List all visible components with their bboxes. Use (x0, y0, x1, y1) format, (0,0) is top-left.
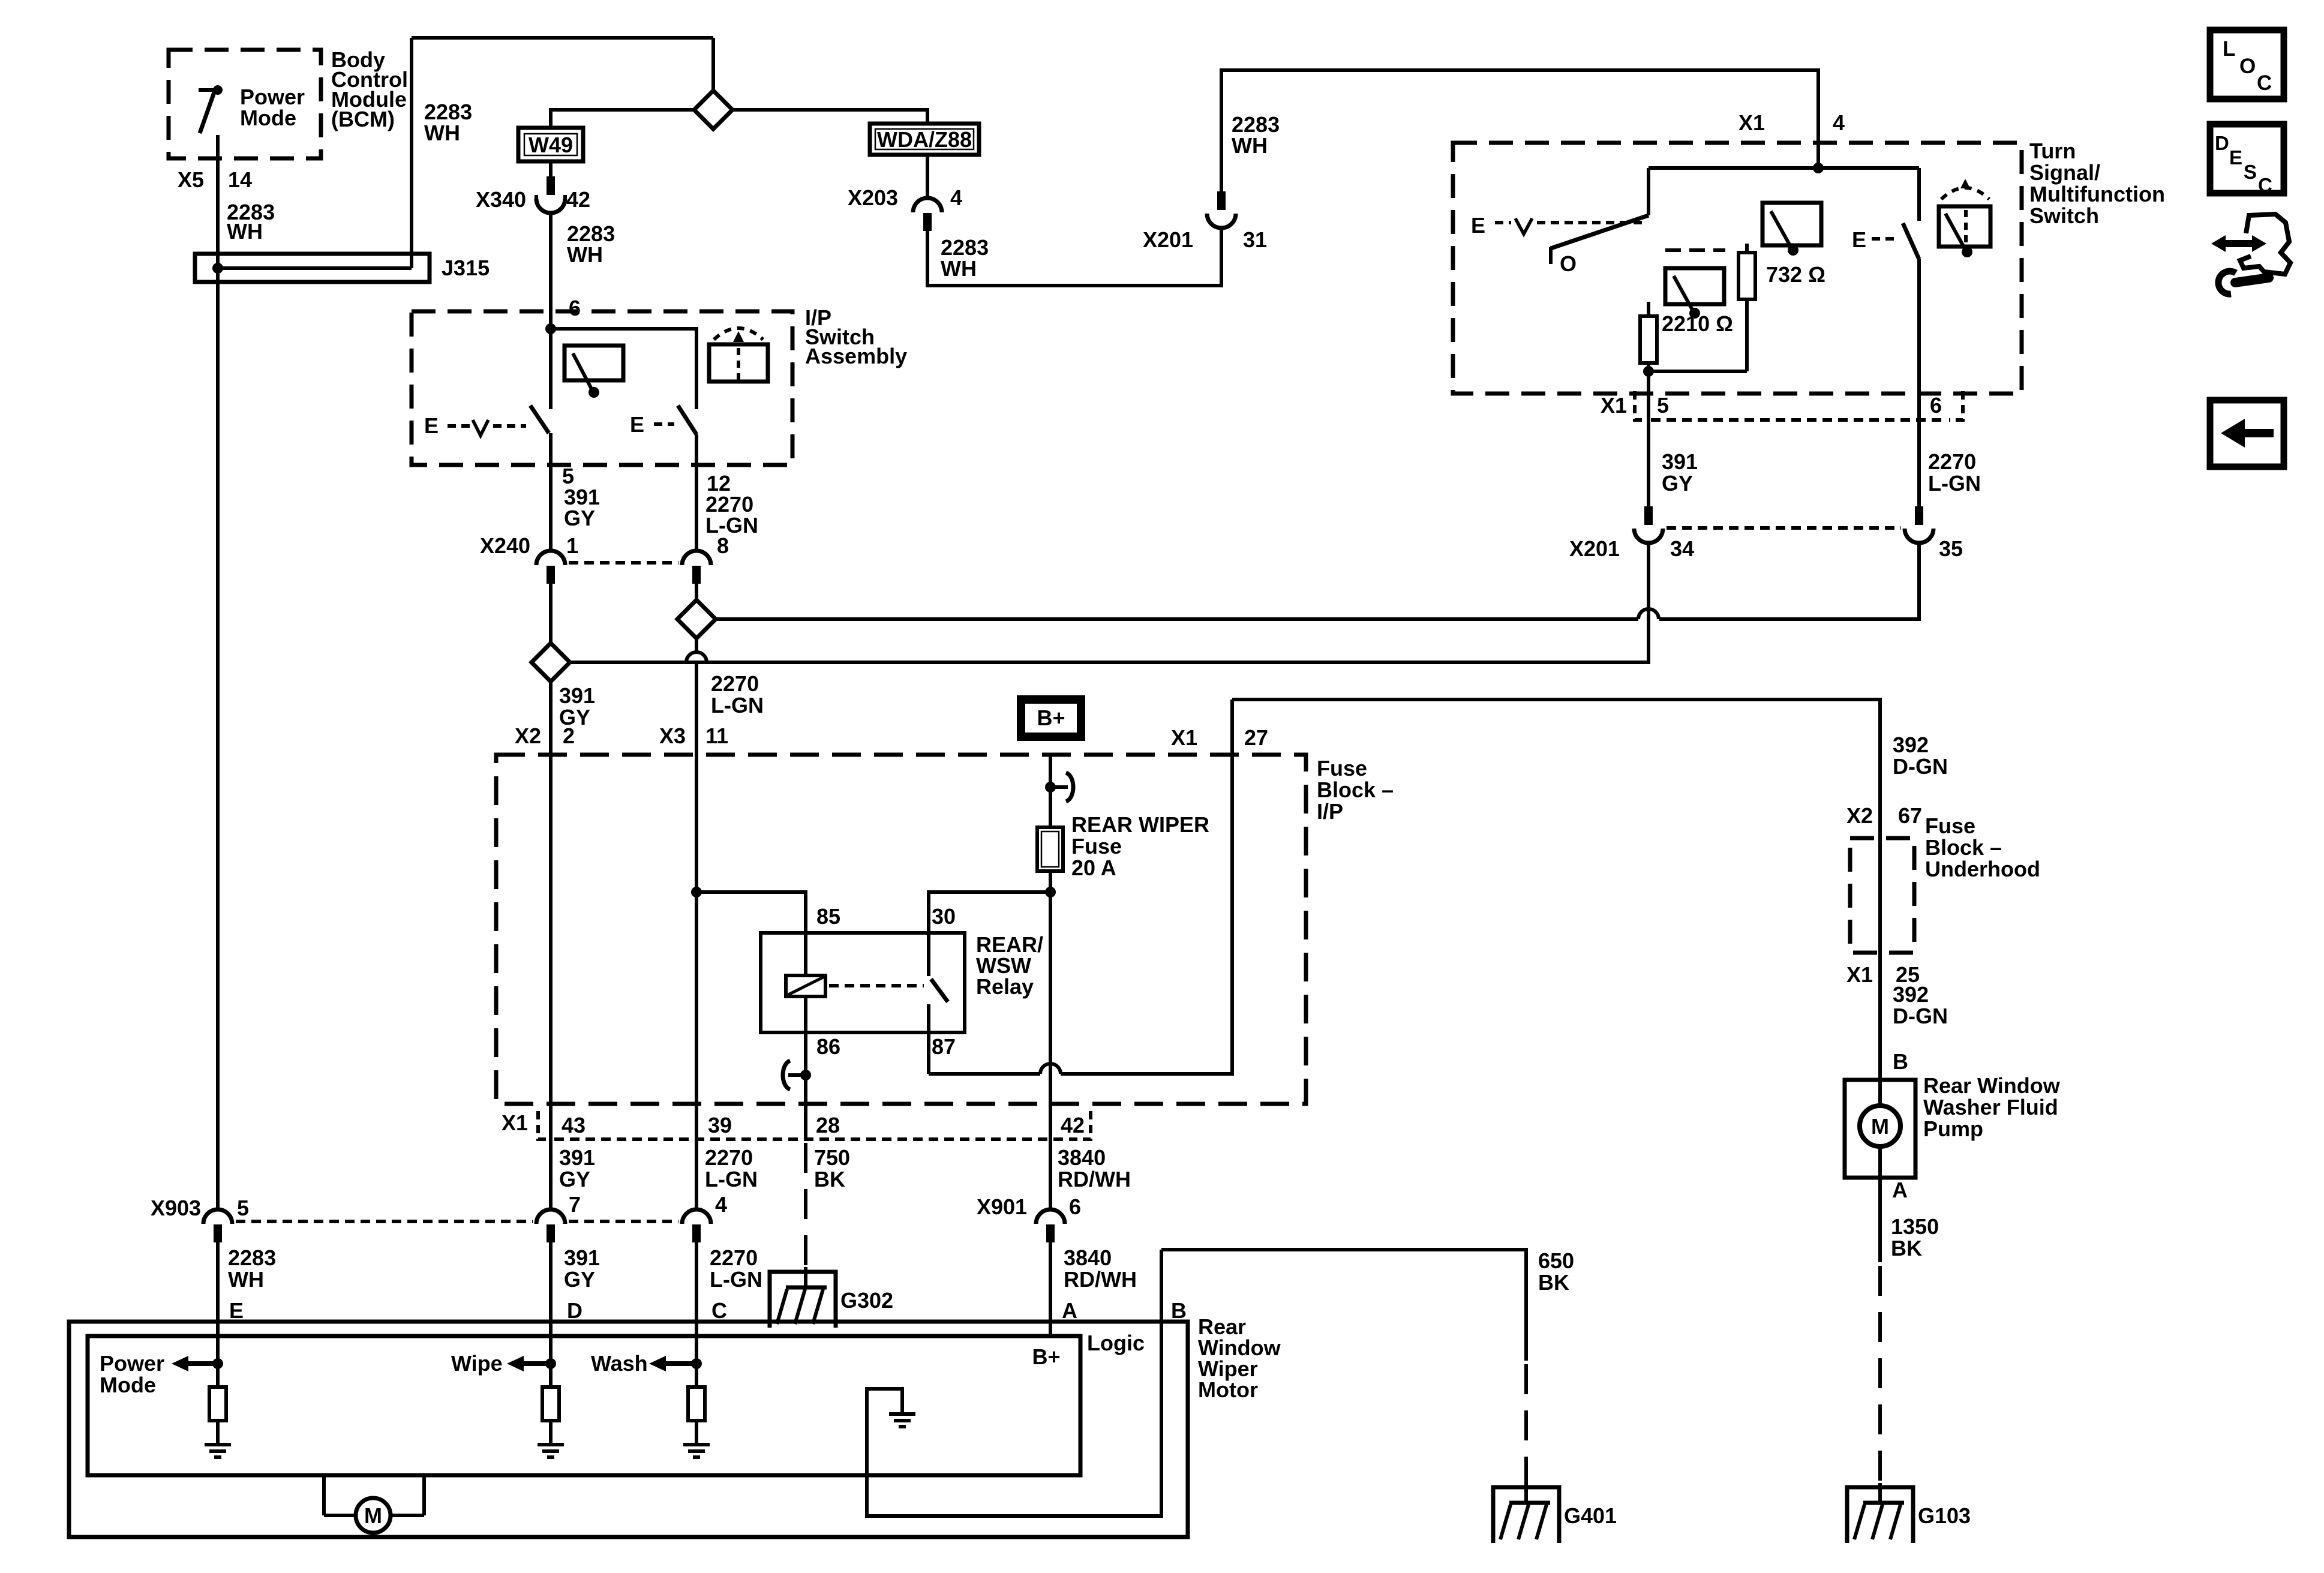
svg-text:X1: X1 (1846, 962, 1873, 987)
washer icon I/P (709, 328, 768, 382)
wire 391 GY return run (571, 543, 1649, 662)
wire 2270 L-GN return run (1659, 543, 1919, 619)
fuse clip hook (1050, 773, 1073, 801)
connector X201 pin 31 (1143, 191, 1267, 252)
top rail wire (412, 36, 713, 40)
E-v linkage (left switch) (1471, 213, 1645, 238)
B+ terminal box (1021, 700, 1081, 737)
svg-text:L-GN: L-GN (1928, 471, 1981, 496)
svg-text:2270: 2270 (710, 1245, 758, 1270)
svg-text:X240: X240 (480, 533, 530, 558)
svg-text:D: D (2215, 132, 2229, 154)
REAR WIPER Fuse 20 A (1037, 812, 1209, 880)
svg-text:B+: B+ (1037, 706, 1065, 730)
connector X901 pin 6 (977, 1194, 1081, 1242)
svg-text:650: 650 (1538, 1248, 1574, 1273)
svg-text:E: E (424, 413, 439, 438)
svg-text:4: 4 (950, 185, 962, 210)
Rear Window Washer Fluid Pump (1845, 1073, 2061, 1178)
splice W49 (518, 128, 583, 161)
relay linkage dashed (829, 984, 924, 987)
svg-text:WH: WH (567, 242, 603, 267)
pin labels X2-2 and X3-11 at fuse block top (515, 724, 728, 748)
svg-text:X201: X201 (1143, 227, 1193, 252)
resistor 2210 ohm (1640, 302, 1747, 506)
svg-text:Rear Window: Rear Window (1923, 1073, 2061, 1098)
splice diamond 391 GY (532, 643, 570, 682)
svg-text:5: 5 (237, 1196, 249, 1220)
connector X240 pin 8 (682, 533, 729, 584)
svg-text:Multifunction: Multifunction (2029, 182, 2165, 206)
svg-text:A: A (1892, 1178, 1908, 1202)
svg-text:D: D (567, 1298, 582, 1323)
wire 392 D-GN through underhood block (1878, 838, 1882, 953)
svg-text:X1: X1 (1739, 110, 1765, 135)
svg-text:BK: BK (1538, 1270, 1569, 1295)
wires from connectors into motor (216, 1242, 220, 1364)
wire diamond to W49 (551, 110, 694, 128)
svg-text:S: S (2244, 161, 2257, 183)
svg-text:RD/WH: RD/WH (1064, 1267, 1137, 1292)
svg-text:Block –: Block – (1317, 778, 1394, 802)
svg-text:C: C (2257, 71, 2272, 95)
connector row X1 pins 43 39 28 42 (502, 1110, 1091, 1139)
svg-text:X2: X2 (1846, 803, 1873, 828)
svg-text:X1: X1 (1601, 393, 1627, 418)
node on X1-4 feed inside switch (1813, 163, 1824, 173)
svg-text:WH: WH (1232, 133, 1268, 158)
svg-text:I/P: I/P (1317, 799, 1343, 824)
Fuse Block Underhood dashed box (1850, 813, 2040, 953)
svg-text:391: 391 (1662, 449, 1698, 474)
svg-text:3840: 3840 (1064, 1245, 1112, 1270)
svg-text:Switch: Switch (2029, 203, 2099, 228)
svg-text:M: M (1871, 1114, 1889, 1139)
connector X201 pin 35 (1905, 506, 1963, 561)
wire labels below pin row (559, 1145, 1131, 1191)
svg-text:E: E (1471, 213, 1485, 238)
svg-text:14: 14 (228, 167, 252, 192)
connector X903 pin 7 (536, 1192, 581, 1242)
wire X201-31 up and right to X1-4 (1221, 70, 1818, 191)
svg-text:2: 2 (563, 724, 575, 748)
svg-text:J315: J315 (442, 256, 490, 280)
svg-text:C: C (711, 1298, 727, 1323)
svg-text:30: 30 (932, 904, 956, 929)
connector X903 pin 4 (682, 1192, 727, 1242)
svg-text:E: E (630, 412, 644, 437)
wire W49 down to X340 (549, 161, 553, 178)
internal ground path from B (867, 1250, 1161, 1516)
svg-text:11: 11 (705, 724, 728, 748)
wire WDA/Z88 down to X203 (926, 155, 929, 197)
svg-text:X201: X201 (1569, 536, 1620, 561)
392 D-GN rail to fuse block underhood (1232, 700, 1880, 838)
svg-text:35: 35 (1939, 536, 1963, 561)
svg-text:Wipe: Wipe (451, 1351, 503, 1376)
svg-text:2283: 2283 (228, 1245, 276, 1270)
I/P Switch Assembly dashed box (412, 311, 792, 465)
svg-text:Turn: Turn (2029, 139, 2076, 163)
wire 2270 L-GN label to X201-35 (1928, 449, 1981, 496)
relay 87 output to X1-27 riser with hop over fuse wire (929, 1072, 1040, 1076)
connector X240 pin 1 (480, 533, 578, 584)
svg-text:Motor: Motor (1198, 1377, 1258, 1402)
svg-text:BK: BK (814, 1167, 845, 1191)
wire 391 GY below diamond (549, 682, 553, 1208)
svg-text:391: 391 (564, 1245, 600, 1270)
connector X201 pin 34 (1569, 506, 1694, 561)
wire 391 GY down to diamond (549, 584, 553, 643)
svg-text:X340: X340 (476, 187, 526, 212)
wire diamond to WDA/Z88 (732, 110, 927, 124)
svg-text:WH: WH (228, 1267, 264, 1292)
svg-text:1: 1 (566, 533, 578, 558)
svg-text:E: E (229, 1298, 244, 1323)
wiper icon I/P (565, 346, 623, 398)
svg-text:X1: X1 (1171, 725, 1197, 750)
svg-text:Wash: Wash (591, 1351, 648, 1376)
wiper delay icon above 2210 (1665, 250, 1725, 319)
svg-text:E: E (1852, 227, 1866, 252)
relay coil (786, 933, 825, 1139)
Power Mode switch inside BCM (199, 85, 223, 133)
svg-text:O: O (1560, 251, 1577, 276)
svg-text:67: 67 (1898, 803, 1922, 828)
sidebar DESC icon (2210, 124, 2284, 196)
svg-text:D-GN: D-GN (1893, 754, 1948, 779)
svg-text:Mode: Mode (240, 106, 296, 130)
internal resistor C (683, 1364, 710, 1457)
wire 2270 L-GN continues to diamond (716, 617, 1638, 621)
Wash input arrow (591, 1351, 702, 1376)
svg-text:28: 28 (816, 1113, 840, 1137)
svg-text:X903: X903 (151, 1196, 201, 1220)
svg-text:GY: GY (559, 1167, 590, 1191)
svg-text:BK: BK (1891, 1236, 1922, 1260)
svg-text:391: 391 (559, 1145, 595, 1170)
svg-text:Fuse: Fuse (1071, 834, 1122, 858)
svg-text:B+: B+ (1032, 1344, 1060, 1369)
svg-text:750: 750 (814, 1145, 850, 1170)
wiper switch blade and E-v linkage (424, 406, 549, 438)
svg-text:Power: Power (100, 1351, 164, 1376)
BCM label text (240, 47, 408, 131)
wire 750 BK dashed to ground G302 (804, 1143, 807, 1271)
svg-text:E: E (2229, 146, 2242, 169)
svg-text:GY: GY (1662, 471, 1693, 496)
svg-text:X2: X2 (515, 724, 541, 748)
svg-text:B: B (1893, 1049, 1908, 1074)
svg-text:GY: GY (564, 1267, 595, 1292)
svg-text:6: 6 (569, 296, 581, 320)
connector X340 pin 42 (476, 176, 590, 213)
svg-text:391: 391 (559, 683, 595, 708)
svg-text:4: 4 (1833, 110, 1845, 135)
svg-text:Mode: Mode (100, 1373, 156, 1397)
svg-text:6: 6 (1930, 393, 1942, 418)
svg-text:1350: 1350 (1891, 1214, 1939, 1239)
node on feed inside I/P switch (545, 323, 556, 334)
wire 2270 L-GN down to diamond (695, 584, 698, 600)
svg-text:WH: WH (227, 219, 263, 244)
svg-text:3840: 3840 (1058, 1145, 1106, 1170)
feed to relay terminal 30 (929, 892, 1050, 933)
connector X203 pin 4 (848, 185, 962, 231)
feed rail to washer switch (551, 329, 696, 409)
wire 2283 WH X340 to I/P switch (549, 213, 553, 329)
ground G103 (1847, 1487, 1971, 1543)
svg-text:7: 7 (569, 1192, 581, 1217)
svg-text:X203: X203 (848, 185, 898, 210)
svg-text:2270: 2270 (705, 1145, 753, 1170)
relay switch contact (929, 933, 948, 1074)
wiper mode switch arm (left) (1551, 168, 1649, 276)
svg-text:WDA/Z88: WDA/Z88 (877, 127, 972, 152)
svg-text:X1: X1 (502, 1110, 528, 1135)
Power Mode input arrow (100, 1351, 223, 1397)
svg-text:Assembly: Assembly (805, 344, 907, 368)
internal resistor E (205, 1364, 231, 1457)
svg-text:86: 86 (816, 1034, 840, 1059)
Rear Window Wiper Motor box (69, 1314, 1281, 1537)
svg-text:Fuse: Fuse (1317, 756, 1367, 781)
motor M symbol (324, 1475, 424, 1533)
svg-text:Logic: Logic (1087, 1331, 1145, 1355)
dashed connector line X240 (569, 561, 678, 565)
wire fuse output down to pin 42 (1049, 871, 1052, 1208)
wire 2270 below diamond with hop over 391 return rail (695, 638, 698, 652)
wire 2283 WH riser from J315 to top rail (410, 38, 413, 268)
svg-text:RD/WH: RD/WH (1058, 1167, 1131, 1191)
splice diamond 2270 L-GN (677, 600, 716, 638)
svg-text:5: 5 (1657, 393, 1669, 418)
svg-text:D-GN: D-GN (1893, 1004, 1948, 1028)
Turn Signal/Multifunction Switch dashed box (1453, 143, 2022, 394)
svg-text:392: 392 (1893, 733, 1929, 757)
pin label X5 14 (178, 167, 275, 244)
svg-text:WH: WH (941, 256, 977, 281)
svg-text:(BCM): (BCM) (331, 107, 395, 131)
svg-text:G103: G103 (1918, 1503, 1971, 1528)
svg-text:L-GN: L-GN (705, 1167, 758, 1191)
connector row X1 pins 5 and 6 (1601, 391, 1963, 420)
svg-text:Block –: Block – (1925, 835, 2002, 860)
wire drop to top diamond (711, 38, 715, 91)
svg-text:42: 42 (1061, 1113, 1085, 1137)
svg-text:34: 34 (1670, 536, 1694, 561)
svg-text:31: 31 (1243, 227, 1267, 252)
svg-text:2270: 2270 (1928, 449, 1976, 474)
splice WDA/Z88 (870, 124, 979, 155)
feed to relay terminal 85 (696, 892, 806, 933)
svg-text:WH: WH (424, 121, 460, 145)
svg-text:X3: X3 (659, 724, 686, 748)
svg-text:G302: G302 (840, 1288, 893, 1313)
svg-text:Pump: Pump (1923, 1116, 1983, 1141)
Logic box inside motor (88, 1331, 1145, 1475)
svg-text:B: B (1171, 1298, 1187, 1323)
internal feed rail (1649, 166, 1919, 170)
svg-text:W49: W49 (529, 133, 573, 157)
pin label X1 27 (1171, 725, 1268, 750)
svg-text:O: O (2239, 55, 2256, 78)
washer switch arm (right) (1852, 168, 1919, 506)
svg-text:732 Ω: 732 Ω (1766, 262, 1825, 287)
wire 2283 WH from BCM pin X5-14 down (216, 135, 220, 1208)
relay 86 clip hook and node (783, 1061, 811, 1089)
svg-text:Relay: Relay (976, 974, 1034, 999)
wire pin 12 down to X240-8 (695, 434, 698, 550)
svg-text:20 A: 20 A (1071, 855, 1116, 880)
svg-text:X5: X5 (178, 167, 204, 192)
svg-text:8: 8 (717, 533, 729, 558)
svg-text:REAR WIPER: REAR WIPER (1071, 812, 1209, 837)
svg-text:Signal/: Signal/ (2029, 160, 2100, 185)
wiper switch upper wire (549, 329, 553, 409)
svg-text:2210 Ω: 2210 Ω (1662, 311, 1733, 336)
svg-text:X901: X901 (977, 1194, 1027, 1219)
svg-text:G401: G401 (1564, 1503, 1617, 1528)
wire 392 D-GN labels above underhood fuse block (1846, 733, 1948, 828)
wire 1350 BK from pump A (1878, 1178, 1882, 1262)
wire labels above motor (228, 1245, 1187, 1323)
svg-text:A: A (1062, 1298, 1077, 1323)
svg-text:L: L (2223, 37, 2235, 61)
node on 2270 L-GN feeding relay coil (691, 887, 702, 897)
dashed connector line X903 (236, 1220, 533, 1223)
wire 2283 WH X203 to X201-31 (927, 227, 1221, 286)
svg-text:4: 4 (715, 1192, 727, 1217)
connector X903 pin 5 (151, 1196, 249, 1242)
svg-text:2270: 2270 (711, 671, 759, 696)
svg-text:L-GN: L-GN (705, 513, 758, 538)
hop of 2270 wire over 391 wire (1638, 609, 1659, 619)
sidebar back-arrow icon (2210, 400, 2284, 467)
svg-text:Underhood: Underhood (1925, 857, 2040, 881)
Wipe input arrow (451, 1351, 556, 1376)
svg-text:85: 85 (816, 904, 840, 929)
svg-text:C: C (2258, 174, 2272, 196)
sidebar LOC icon (2210, 30, 2284, 99)
Body Control Module (BCM) dashed box (169, 50, 321, 158)
svg-text:87: 87 (932, 1034, 956, 1059)
Fuse Block I/P dashed box (496, 755, 1306, 1104)
ground G302 (770, 1272, 893, 1328)
wiper icon in turn signal switch (1762, 203, 1821, 256)
washer icon in turn signal switch (1939, 179, 1990, 257)
svg-text:M: M (364, 1503, 382, 1528)
svg-text:27: 27 (1244, 725, 1268, 750)
svg-text:6: 6 (1069, 1194, 1081, 1219)
splice diamond top (694, 91, 732, 129)
wire pin 5 down to X240-1 (549, 433, 553, 550)
svg-text:Washer Fluid: Washer Fluid (1923, 1095, 2058, 1119)
sidebar component-view car icon (2211, 214, 2290, 294)
resistor 732 ohm (1739, 244, 1825, 371)
wire from B+ down to fuse (1049, 755, 1052, 827)
svg-text:43: 43 (562, 1113, 585, 1137)
dashed connector line X201 (1667, 526, 1901, 530)
REAR/WSW Relay box (761, 904, 1043, 1059)
svg-text:L-GN: L-GN (711, 693, 764, 718)
washer switch blade and E linkage (630, 406, 696, 437)
ground G401 (1493, 1487, 1617, 1543)
internal resistor D (538, 1364, 564, 1457)
svg-text:L-GN: L-GN (710, 1267, 762, 1292)
splice pack J315 (195, 254, 490, 282)
label 2283 WH on riser (424, 100, 472, 145)
svg-text:392: 392 (1893, 982, 1929, 1007)
svg-text:GY: GY (564, 506, 595, 530)
wire 392 D-GN down to washer pump (1878, 953, 1882, 1106)
wire 391 GY label to X201-34 (1662, 449, 1698, 496)
svg-text:42: 42 (566, 187, 590, 212)
wire 650 BK from B to G401 (1161, 1250, 1526, 1361)
svg-text:39: 39 (708, 1113, 732, 1137)
svg-text:Fuse: Fuse (1925, 813, 1975, 838)
wire pump M internal (1878, 1146, 1882, 1178)
